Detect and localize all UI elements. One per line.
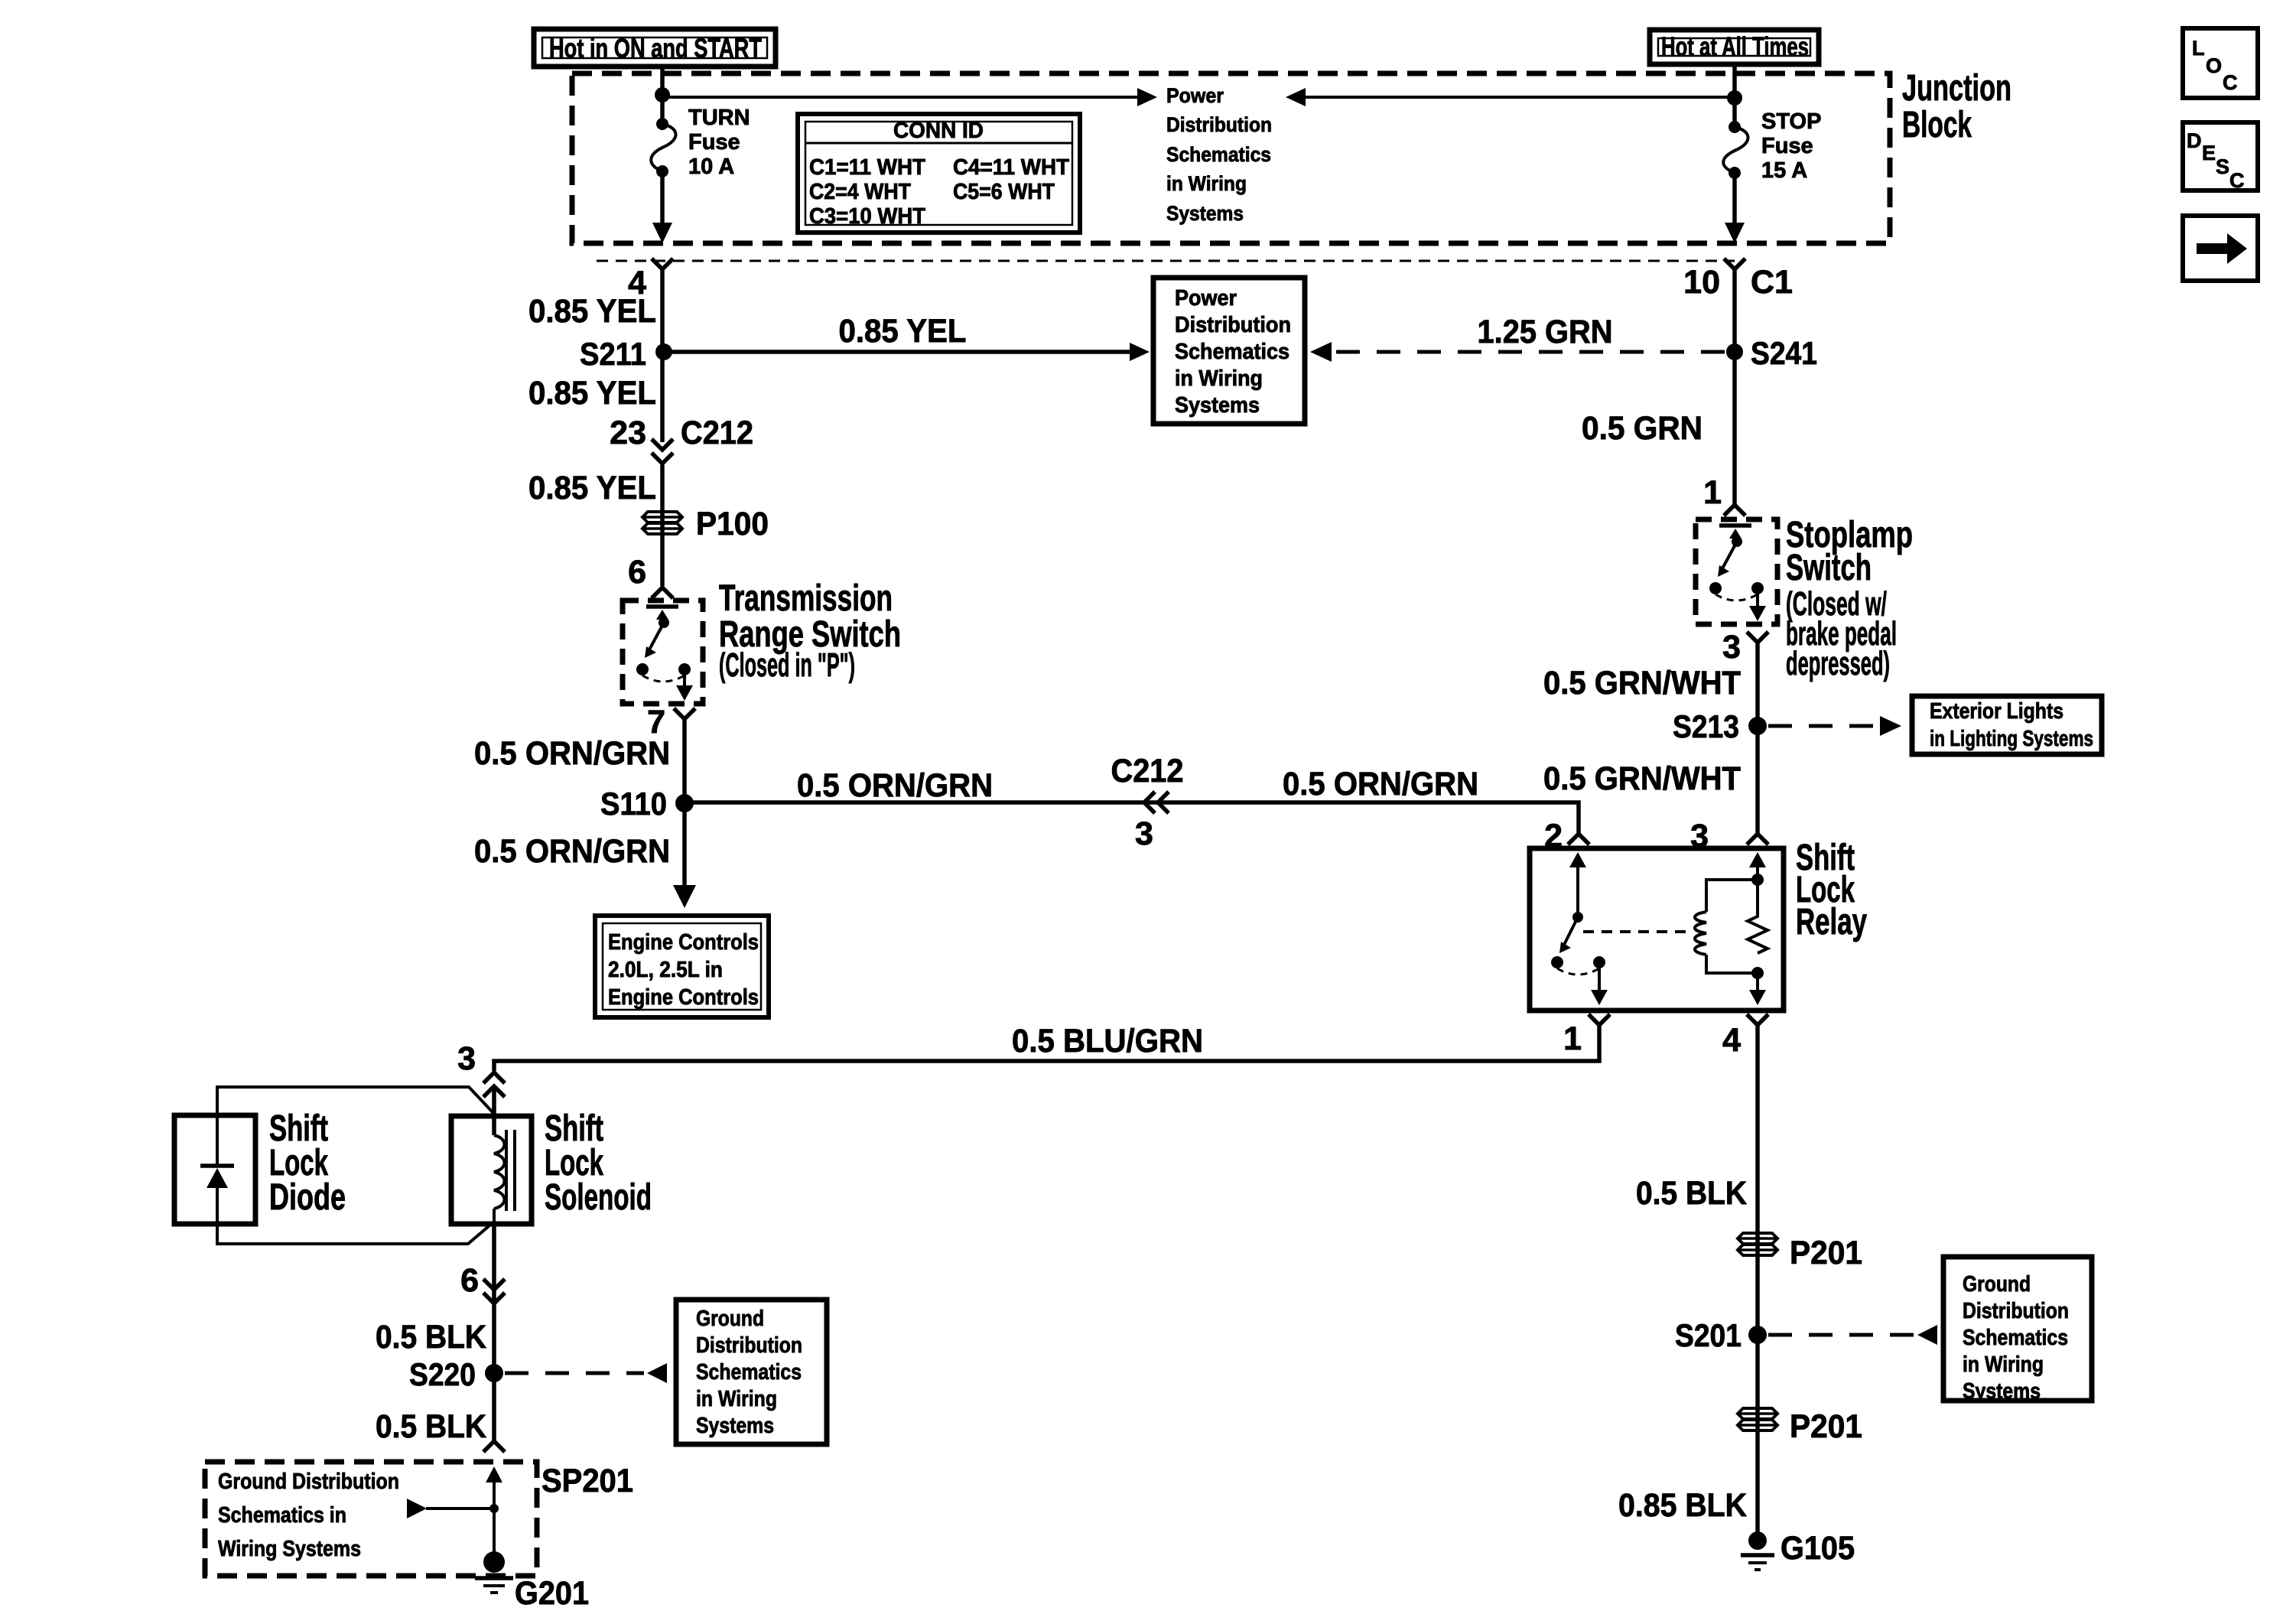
grommet P201 (upper) [1738, 1233, 1862, 1271]
svg-text:0.85 YEL: 0.85 YEL [528, 375, 656, 412]
svg-text:1: 1 [1563, 1020, 1582, 1057]
ground G201 [475, 1551, 589, 1611]
svg-text:Ground Distribution: Ground Distribution [218, 1469, 399, 1494]
svg-text:Systems: Systems [696, 1414, 774, 1438]
pin 1 chevron above stoplamp switch [1724, 505, 1745, 516]
svg-text:Wiring Systems: Wiring Systems [218, 1537, 361, 1561]
net label: Power Distribution Schematics (top center) [1166, 84, 1272, 225]
junction block dashed outline [572, 73, 1890, 243]
svg-text:Power: Power [1175, 286, 1237, 311]
svg-text:S213: S213 [1673, 708, 1739, 744]
svg-text:0.5 ORN/GRN: 0.5 ORN/GRN [797, 767, 993, 804]
wire: 0.5 BLK solenoid to SP201 [492, 1224, 496, 1443]
svg-text:3: 3 [457, 1040, 476, 1077]
svg-text:C3=10 WHT: C3=10 WHT [809, 204, 925, 229]
wire: SP201 internal with up arrow [493, 1478, 496, 1562]
svg-text:(Closed in "P"): (Closed in "P") [719, 646, 855, 684]
pin 6 chevron above transmission range switch [652, 587, 673, 598]
pin 3 chevron below stoplamp switch [1747, 632, 1768, 643]
svg-text:Schematics: Schematics [696, 1360, 802, 1385]
svg-text:15 A: 15 A [1761, 158, 1807, 183]
connector C212 pin 23 double chevron [610, 415, 753, 464]
svg-text:0.5 GRN: 0.5 GRN [1582, 410, 1702, 447]
svg-text:O: O [2206, 54, 2222, 77]
svg-text:S241: S241 [1751, 335, 1817, 371]
svg-text:6: 6 [628, 554, 646, 591]
svg-text:0.5 ORN/GRN: 0.5 ORN/GRN [474, 735, 670, 772]
wire: 0.5 BLU/GRN relay pin 1 to solenoid [494, 1025, 1599, 1071]
wire: S110 horizontal 0.5 ORN/GRN to relay pin 2 [685, 802, 1579, 834]
connector C1 dashed interface line [597, 260, 1735, 262]
svg-text:Solenoid: Solenoid [545, 1177, 652, 1218]
DESC reference box [2183, 122, 2258, 192]
svg-text:0.5 BLU/GRN: 0.5 BLU/GRN [1012, 1023, 1203, 1059]
grommet P100 [642, 506, 769, 542]
svg-text:3: 3 [1722, 629, 1741, 666]
transmission range switch (dashed box) [623, 600, 703, 704]
svg-text:C212: C212 [681, 415, 753, 451]
splice S211 [655, 343, 672, 360]
svg-text:C2=4 WHT: C2=4 WHT [809, 180, 911, 204]
svg-text:Diode: Diode [269, 1177, 346, 1218]
label box "Hot in ON and START" [534, 29, 776, 67]
svg-text:SP201: SP201 [541, 1463, 633, 1499]
wire: dashed reference S201 to Ground Distribution [1768, 1333, 1914, 1337]
svg-text:C: C [2223, 71, 2238, 94]
svg-text:0.5 BLK: 0.5 BLK [1636, 1175, 1747, 1212]
pin 4 chevron below junction block [652, 259, 673, 269]
svg-text:Fuse: Fuse [1761, 134, 1813, 158]
svg-text:Systems: Systems [1963, 1379, 2041, 1404]
svg-text:in Wiring: in Wiring [696, 1387, 777, 1411]
svg-text:CONN ID: CONN ID [893, 119, 984, 143]
shift lock solenoid [451, 1116, 532, 1224]
svg-text:0.85 YEL: 0.85 YEL [528, 470, 656, 506]
stoplamp switch (dashed box) [1696, 519, 1777, 624]
svg-text:0.5 ORN/GRN: 0.5 ORN/GRN [1283, 766, 1478, 802]
pin 10 chevron below junction block [1724, 259, 1745, 269]
svg-text:Systems: Systems [1175, 393, 1260, 418]
svg-text:1.25 GRN: 1.25 GRN [1478, 314, 1613, 350]
svg-text:Schematics: Schematics [1963, 1326, 2068, 1350]
splice S110 [675, 794, 694, 812]
svg-text:Exterior Lights: Exterior Lights [1930, 699, 2063, 724]
wire: 1.25 GRN dashed reference to Power Distribution [1336, 350, 1725, 354]
svg-text:10: 10 [1683, 264, 1720, 301]
pin 2 chevron above relay [1568, 834, 1589, 845]
svg-text:Relay: Relay [1796, 902, 1867, 942]
svg-text:Distribution: Distribution [1175, 313, 1291, 337]
wire: fuse output arrow to block edge (right) [1732, 173, 1737, 226]
wire: 0.85 YEL pin 4 to C212 [660, 269, 665, 442]
svg-text:Ground: Ground [696, 1307, 764, 1331]
LOC reference box [2183, 28, 2258, 98]
svg-text:6: 6 [460, 1262, 479, 1299]
reference box: Ground Distribution Schematics (S220) [676, 1300, 827, 1444]
wire: diode loop top [217, 1087, 494, 1115]
svg-text:Systems: Systems [1166, 202, 1244, 225]
svg-text:C212: C212 [1111, 753, 1184, 789]
svg-text:3: 3 [1135, 815, 1153, 852]
shift lock relay [1530, 848, 1784, 1011]
svg-text:TURN: TURN [688, 106, 750, 130]
ground G105 [1741, 1530, 1855, 1570]
arrow into Engine Controls box [673, 885, 696, 908]
svg-text:P100: P100 [696, 506, 769, 542]
pin 7 chevron below transmission range switch [674, 708, 695, 719]
svg-text:in Lighting Systems: in Lighting Systems [1930, 727, 2093, 751]
wire: 0.85 YEL C212 to P100 [660, 464, 665, 586]
wire: into solenoid [492, 1086, 496, 1135]
svg-text:Schematics in: Schematics in [218, 1503, 346, 1528]
svg-text:S211: S211 [580, 336, 646, 372]
wire: arrow to Power Distribution text (right) [1304, 96, 1735, 99]
svg-text:depressed): depressed) [1786, 645, 1890, 682]
pin 1 chevron below relay [1589, 1014, 1610, 1025]
svg-text:Schematics: Schematics [1166, 143, 1271, 166]
svg-text:4: 4 [1722, 1022, 1741, 1059]
pin 4 chevron below relay [1747, 1014, 1768, 1025]
svg-text:C1: C1 [1751, 264, 1793, 301]
pin 6 double chevron below solenoid [460, 1262, 505, 1303]
connector C212 pin 3 in-line chevrons [1111, 753, 1184, 852]
fuse STOP Fuse 15 A [1723, 109, 1821, 183]
svg-text:G201: G201 [515, 1575, 589, 1611]
svg-text:1: 1 [1703, 474, 1722, 511]
svg-text:Engine Controls: Engine Controls [608, 985, 759, 1010]
svg-text:S201: S201 [1675, 1317, 1742, 1353]
wire: arrow to Power Distribution text (left) [662, 96, 1139, 99]
shift lock diode [174, 1115, 255, 1224]
svg-text:E: E [2202, 142, 2216, 164]
svg-text:C5=6 WHT: C5=6 WHT [953, 180, 1055, 204]
splice S201 [1748, 1326, 1767, 1344]
svg-text:Schematics: Schematics [1175, 340, 1289, 364]
svg-text:0.5 BLK: 0.5 BLK [376, 1319, 486, 1356]
svg-text:Switch: Switch [1786, 548, 1872, 588]
arrow reference box [2183, 216, 2258, 281]
svg-text:Ground: Ground [1963, 1272, 2031, 1297]
svg-text:0.85 YEL: 0.85 YEL [528, 293, 656, 330]
fuse TURN Fuse 10 A [651, 106, 750, 179]
svg-text:2.0L, 2.5L in: 2.0L, 2.5L in [608, 958, 723, 982]
splice SP201 dashed box [205, 1462, 537, 1576]
wire: 0.5 ORN/GRN switch to S110 [682, 719, 687, 887]
svg-text:Engine Controls: Engine Controls [608, 930, 759, 955]
wire: internal branch with arrow [426, 1507, 494, 1510]
svg-text:0.5 BLK: 0.5 BLK [376, 1408, 486, 1445]
svg-text:P201: P201 [1790, 1235, 1862, 1271]
svg-text:23: 23 [610, 415, 646, 451]
pin 3 double chevron above solenoid [457, 1040, 505, 1097]
svg-text:0.85 YEL: 0.85 YEL [839, 313, 967, 350]
svg-text:Transmission: Transmission [719, 578, 893, 619]
svg-text:10 A: 10 A [688, 155, 734, 179]
wire: 0.5 GRN/WHT stoplamp to relay pin 3 [1755, 643, 1760, 834]
splice S241 [1726, 343, 1743, 360]
svg-text:C: C [2229, 169, 2245, 192]
wire: left feed into junction block [660, 64, 665, 124]
svg-text:C4=11 WHT: C4=11 WHT [953, 155, 1069, 180]
svg-text:Block: Block [1902, 105, 1972, 145]
svg-text:0.5 ORN/GRN: 0.5 ORN/GRN [474, 833, 670, 870]
wire: 0.5 BLK relay pin 4 to G105 [1755, 1025, 1760, 1541]
wire: 0.5 GRN pin 10 to stoplamp switch [1732, 269, 1737, 505]
svg-text:Power: Power [1166, 84, 1224, 107]
splice S213 [1748, 717, 1767, 735]
svg-text:C1=11 WHT: C1=11 WHT [809, 155, 925, 180]
svg-text:in Wiring: in Wiring [1175, 366, 1263, 391]
svg-text:0.5 GRN/WHT: 0.5 GRN/WHT [1543, 665, 1741, 701]
svg-text:0.85 BLK: 0.85 BLK [1618, 1487, 1747, 1524]
junction dot (right feed) [1727, 90, 1742, 106]
svg-text:Hot at All Times: Hot at All Times [1661, 32, 1809, 62]
wire: S211 branch to Power Distribution box [664, 350, 1130, 354]
chevron above SP201 [483, 1441, 505, 1452]
svg-text:Distribution: Distribution [1963, 1299, 2069, 1323]
svg-text:STOP: STOP [1761, 109, 1821, 134]
junction dot (left feed) [655, 87, 670, 103]
svg-text:D: D [2187, 129, 2202, 152]
svg-text:in Wiring: in Wiring [1963, 1352, 2044, 1377]
grommet P201 (lower) [1738, 1408, 1862, 1445]
reference box: Exterior Lights in Lighting Systems [1912, 696, 2102, 754]
reference box: Engine Controls 2.0L 2.5L [595, 916, 769, 1017]
svg-text:P201: P201 [1790, 1408, 1862, 1445]
reference text inside SP201 box [218, 1469, 399, 1561]
svg-text:Hot in ON and START: Hot in ON and START [549, 34, 762, 63]
svg-text:S220: S220 [409, 1356, 476, 1392]
wire: right feed into junction block [1732, 64, 1737, 127]
svg-text:Fuse: Fuse [688, 130, 740, 155]
wire: dashed reference S220 to Ground Distribution [505, 1372, 644, 1375]
svg-text:G105: G105 [1781, 1530, 1855, 1567]
svg-text:0.5 GRN/WHT: 0.5 GRN/WHT [1543, 760, 1741, 797]
svg-text:L: L [2192, 37, 2205, 60]
reference box: Power Distribution Schematics in Wiring Systems [1153, 278, 1305, 424]
reference box: Ground Distribution Schematics (S201) [1943, 1257, 2092, 1404]
wire: fuse output arrow to block edge (left) [660, 171, 665, 226]
svg-text:Junction: Junction [1902, 68, 2011, 109]
splice S220 [485, 1364, 503, 1382]
svg-text:Distribution: Distribution [1166, 113, 1272, 136]
pin 3 chevron above relay [1747, 834, 1768, 845]
CONN ID table [798, 114, 1080, 233]
svg-text:in Wiring: in Wiring [1166, 172, 1247, 195]
svg-text:Distribution: Distribution [696, 1333, 802, 1358]
svg-text:S: S [2216, 155, 2229, 178]
wire: dashed reference to Exterior Lights [1768, 724, 1878, 728]
label box "Hot at All Times" [1650, 30, 1819, 64]
wire: diode loop bottom [217, 1222, 494, 1244]
svg-text:S110: S110 [600, 786, 667, 822]
